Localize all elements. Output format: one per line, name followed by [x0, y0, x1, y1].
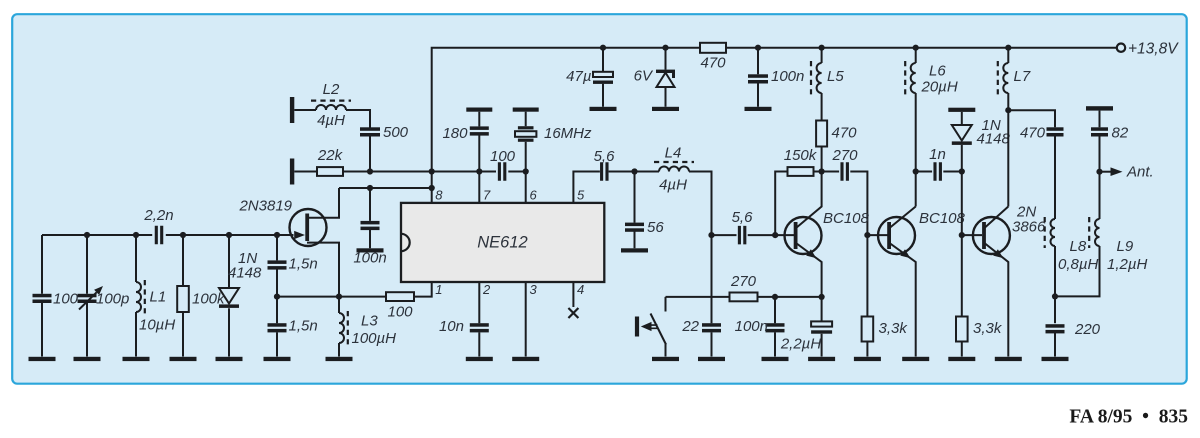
svg-text:56: 56 — [647, 219, 664, 236]
ground — [170, 357, 197, 361]
capacitor 22 — [711, 235, 713, 356]
svg-text:+13,8V: +13,8V — [1128, 41, 1179, 58]
zener diode 6V — [665, 48, 667, 107]
svg-text:L9: L9 — [1117, 238, 1134, 255]
svg-text:4µH: 4µH — [659, 177, 687, 194]
resistor 150k — [788, 167, 814, 176]
ground — [745, 107, 772, 111]
capacitor 100n emitter — [774, 297, 776, 357]
wire oscillator row — [432, 171, 526, 173]
svg-text:BC108: BC108 — [823, 210, 870, 227]
capacitor 1,5n upper — [276, 235, 278, 297]
svg-text:2,2n: 2,2n — [143, 207, 173, 224]
svg-text:1: 1 — [435, 282, 442, 297]
svg-text:FA 8/95 • 835: FA 8/95 • 835 — [1069, 407, 1188, 428]
svg-text:100: 100 — [387, 304, 413, 321]
terminal +13,8V — [1117, 44, 1125, 52]
svg-text:7: 7 — [483, 188, 491, 203]
svg-text:4: 4 — [577, 282, 584, 297]
transistor Q2 BC108 — [785, 217, 822, 254]
svg-text:10n: 10n — [439, 318, 464, 335]
wire T3 base — [962, 234, 982, 236]
node pin7-mid — [476, 168, 482, 174]
svg-text:4148: 4148 — [977, 131, 1011, 148]
svg-text:470: 470 — [832, 125, 858, 142]
wire rail left and pin8 column — [432, 48, 700, 203]
node rail-6V — [662, 45, 668, 51]
capacitor 180 — [466, 108, 492, 112]
ground — [123, 357, 150, 361]
resistor 22k — [294, 171, 317, 173]
trimmer capacitor 100p — [86, 235, 88, 357]
capacitor 270 series — [822, 172, 868, 236]
node input-L1 — [133, 232, 139, 238]
ground — [326, 357, 353, 361]
resistor 100 pin1 — [386, 292, 414, 301]
resistor 3,3k first — [866, 235, 868, 356]
node base-T2 — [864, 232, 870, 238]
node pin8-mid — [429, 168, 435, 174]
transistor Q1 2N3819 JFET — [290, 209, 327, 246]
wire 1n row — [916, 171, 962, 173]
morse key switch — [665, 297, 667, 312]
node rail-L5 — [819, 45, 825, 51]
node key-column — [708, 232, 714, 238]
node rail-L7 — [1005, 45, 1011, 51]
svg-text:3: 3 — [530, 282, 538, 297]
inductor L9 1,2uH — [1095, 219, 1100, 246]
svg-text:270: 270 — [730, 273, 757, 290]
wire source row — [277, 282, 432, 297]
node input-100p — [84, 232, 90, 238]
svg-text:2: 2 — [482, 282, 491, 297]
svg-text:L2: L2 — [323, 81, 340, 98]
capacitor 100 series — [498, 162, 501, 181]
node input-100k — [180, 232, 186, 238]
capacitor 1n — [933, 162, 936, 181]
svg-text:L1: L1 — [150, 289, 167, 306]
wire pin3 to ground — [525, 282, 527, 357]
resistor 3,3k second — [956, 317, 968, 342]
svg-text:6: 6 — [530, 188, 538, 203]
svg-text:5,6: 5,6 — [594, 148, 616, 165]
svg-text:100µH: 100µH — [352, 330, 397, 347]
ground — [902, 357, 929, 361]
ground — [1042, 357, 1069, 361]
resistor 270 — [730, 293, 758, 302]
svg-text:L6: L6 — [929, 63, 946, 80]
capacitor 100n rail — [757, 48, 759, 107]
wire base row T1 — [712, 234, 795, 236]
capacitor 56 — [634, 172, 636, 249]
capacitor 100n decoupling — [369, 188, 371, 248]
node 56-branch — [631, 168, 637, 174]
svg-text:8: 8 — [435, 188, 443, 203]
inductor L2 4uH — [294, 109, 316, 111]
ground — [948, 357, 975, 361]
node collector-T2 — [913, 168, 919, 174]
ground — [995, 357, 1022, 361]
capacitor 220 — [1046, 324, 1065, 328]
node gate-1,5n — [274, 232, 280, 238]
ground — [264, 357, 291, 361]
ground — [854, 357, 881, 361]
node drain-pin8 — [429, 185, 435, 191]
svg-text:270: 270 — [831, 147, 858, 164]
svg-text:220: 220 — [1074, 321, 1101, 338]
crystal 16MHz — [513, 108, 539, 112]
svg-text:3866: 3866 — [1012, 219, 1046, 236]
ground — [216, 357, 243, 361]
svg-text:100: 100 — [490, 148, 516, 165]
svg-text:3,3k: 3,3k — [973, 320, 1003, 337]
svg-text:L3: L3 — [361, 313, 378, 330]
node source-row-left — [274, 294, 280, 300]
wire pin5 — [573, 172, 659, 203]
svg-text:1n: 1n — [929, 146, 946, 163]
diode D2 1N4148 — [948, 108, 975, 112]
svg-text:0,8µH: 0,8µH — [1058, 256, 1098, 273]
inductor L5 — [821, 48, 823, 63]
wire 150k branch — [775, 172, 787, 236]
ground — [698, 357, 725, 361]
terminal bar L2 — [290, 97, 294, 123]
wire L4 to key column — [689, 172, 712, 236]
svg-text:2,2µH: 2,2µH — [780, 336, 821, 353]
svg-text:L4: L4 — [665, 145, 682, 162]
capacitor 5,6 first — [600, 162, 603, 181]
capacitor 100 — [41, 235, 43, 357]
node L8-L9 — [1052, 293, 1058, 299]
svg-text:100n: 100n — [353, 250, 386, 267]
capacitor 500 — [360, 127, 380, 131]
svg-text:BC108: BC108 — [919, 210, 966, 227]
capacitor 82 — [1086, 106, 1113, 110]
node 500-22k — [367, 168, 373, 174]
capacitor 470 output — [1047, 127, 1064, 131]
svg-text:L7: L7 — [1014, 68, 1031, 85]
svg-text:100p: 100p — [96, 291, 129, 308]
svg-text:100: 100 — [53, 291, 79, 308]
svg-text:180: 180 — [442, 125, 468, 142]
wire drain to pin8 — [339, 187, 432, 189]
node drain-100n — [367, 185, 373, 191]
svg-text:150k: 150k — [784, 147, 818, 164]
resistor 100k — [182, 235, 184, 357]
node base-150k — [772, 232, 778, 238]
svg-text:100n: 100n — [735, 318, 768, 335]
resistor 470 series — [700, 43, 726, 53]
svg-text:1,5n: 1,5n — [289, 318, 318, 335]
wire pin4 stub — [572, 282, 574, 307]
capacitor 1,5n lower — [276, 297, 278, 357]
svg-text:10µH: 10µH — [139, 317, 175, 334]
transistor Q3 BC108 — [878, 217, 915, 254]
node row2-emitter — [819, 294, 825, 300]
node L7-470cap — [1005, 107, 1011, 113]
svg-text:100k: 100k — [192, 291, 226, 308]
svg-text:NE612: NE612 — [477, 234, 527, 252]
svg-text:20µH: 20µH — [921, 79, 958, 96]
ground — [29, 357, 56, 361]
svg-text:1,5n: 1,5n — [289, 256, 318, 273]
ground — [652, 357, 679, 361]
svg-text:Ant.: Ant. — [1126, 164, 1154, 181]
svg-text:100n: 100n — [771, 68, 804, 85]
ground — [74, 357, 101, 361]
inductor L4 4uH — [659, 167, 689, 172]
diode D1 1N4148 — [228, 235, 230, 357]
svg-text:1,2µH: 1,2µH — [1107, 256, 1147, 273]
node base-T3 — [959, 232, 965, 238]
node row2-100n — [772, 294, 778, 300]
ground — [808, 357, 835, 361]
node rail-L6 — [913, 45, 919, 51]
node antenna tap — [1096, 169, 1102, 175]
resistor 470 vertical — [821, 93, 823, 172]
wire rail right — [726, 47, 1117, 49]
ground — [590, 107, 617, 111]
svg-text:500: 500 — [383, 124, 409, 141]
node rail-100n — [755, 45, 761, 51]
inductor L8 0,8uH — [1051, 219, 1056, 246]
antenna arrow Ant. — [1100, 171, 1111, 173]
wire input net left — [42, 234, 294, 236]
inductor L6 20uH — [915, 48, 917, 63]
ground — [512, 357, 539, 361]
inductor L1 10uH — [135, 235, 137, 357]
ground — [762, 357, 789, 361]
svg-text:6V: 6V — [634, 68, 654, 85]
capacitor 5,6 second — [738, 226, 741, 245]
IC U1 NE612 — [401, 203, 604, 282]
capacitor 10n pin2 — [478, 282, 480, 357]
node source-L3 — [336, 294, 342, 300]
svg-text:22k: 22k — [317, 147, 344, 164]
wire L7 to 470 cap — [1008, 110, 1055, 127]
ground — [652, 107, 679, 111]
svg-text:470: 470 — [1020, 125, 1046, 142]
ground — [466, 357, 493, 361]
svg-text:5,6: 5,6 — [732, 209, 754, 226]
node 1n-diode — [959, 168, 965, 174]
svg-text:4µH: 4µH — [317, 112, 345, 129]
node input-D1 — [226, 232, 232, 238]
terminal bar 22k — [290, 159, 294, 185]
node pin6-mid — [523, 168, 529, 174]
svg-text:47µ: 47µ — [566, 68, 591, 85]
svg-text:22: 22 — [681, 318, 699, 335]
ground — [621, 248, 648, 252]
wire emitter row — [666, 296, 822, 298]
svg-text:2N3819: 2N3819 — [238, 198, 292, 215]
svg-text:5: 5 — [577, 188, 585, 203]
svg-text:16MHz: 16MHz — [544, 125, 592, 142]
svg-text:82: 82 — [1112, 125, 1129, 142]
inductor L3 100uH — [338, 297, 340, 357]
svg-text:L8: L8 — [1070, 238, 1087, 255]
choke 2,2uH — [821, 297, 823, 357]
svg-text:3,3k: 3,3k — [879, 320, 909, 337]
no-connect X pin4 — [568, 308, 578, 318]
svg-text:L5: L5 — [827, 68, 844, 85]
wire T2 base — [867, 234, 887, 236]
node collector-T1 — [819, 168, 825, 174]
capacitor 47u electrolytic — [602, 48, 604, 107]
svg-text:4148: 4148 — [228, 265, 262, 282]
svg-text:470: 470 — [700, 55, 726, 72]
ground — [357, 248, 384, 252]
capacitor 2,2n — [155, 226, 158, 245]
transistor Q4 2N3866 — [973, 217, 1010, 254]
inductor L7 — [1007, 48, 1009, 63]
node rail-47u — [600, 45, 606, 51]
